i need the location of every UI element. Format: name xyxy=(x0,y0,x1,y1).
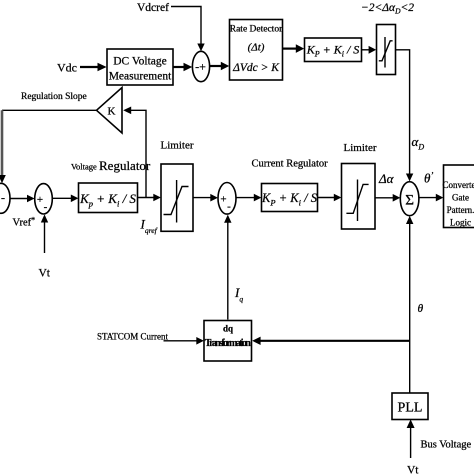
block converter gate pattern logic xyxy=(444,165,474,228)
wire voltage regulator to limiter L1 (Iqref) xyxy=(138,197,158,199)
wire K triangle output to summer S0 xyxy=(2,109,97,111)
svg-text:Gate: Gate xyxy=(452,193,469,203)
svg-text:-: - xyxy=(227,201,231,213)
svg-text:Kp + Ki / S: Kp + Ki / S xyxy=(79,191,136,209)
svg-text:Regulation Slope: Regulation Slope xyxy=(21,92,87,102)
wire summer S1 to Rate Detector xyxy=(210,65,222,67)
svg-text:Measurement: Measurement xyxy=(109,71,172,83)
droop gain K triangle xyxy=(97,88,123,134)
svg-text:-: - xyxy=(44,201,48,213)
wire summer SIGMA to converter gate pattern logic xyxy=(419,197,440,199)
svg-text:Vdc: Vdc xyxy=(57,61,77,75)
wire STATCOM Current to dq transformation xyxy=(164,340,201,342)
svg-text:DC Voltage: DC Voltage xyxy=(113,56,167,68)
wire theta trunk from PLL to summer SIGMA xyxy=(409,220,411,393)
summer SIGMA xyxy=(400,182,419,216)
svg-text:Vt: Vt xyxy=(39,268,51,280)
limiter L2 xyxy=(342,164,376,230)
wire limiter L0 to summer SIGMA (alpha-D path) xyxy=(396,50,410,177)
svg-text:+: + xyxy=(220,194,226,206)
svg-text:Vdcref: Vdcref xyxy=(137,2,169,14)
summer S0 (Vref correction) xyxy=(0,183,10,213)
svg-text:Regulator: Regulator xyxy=(99,158,151,173)
svg-text:Voltage: Voltage xyxy=(71,162,97,172)
wire DC Voltage Measurement to summer S1 xyxy=(173,66,184,68)
limiter L1 xyxy=(161,164,193,231)
svg-text:(Δt): (Δt) xyxy=(248,42,265,54)
wire Bus Voltage to PLL xyxy=(410,424,412,458)
svg-text:Bus Voltage: Bus Voltage xyxy=(421,440,472,451)
svg-text:Σ: Σ xyxy=(405,193,414,209)
svg-text:K: K xyxy=(108,106,116,118)
svg-text:ΔVdc > K: ΔVdc > K xyxy=(232,62,280,74)
svg-text:Limiter: Limiter xyxy=(344,142,377,154)
svg-text:PLL: PLL xyxy=(398,401,423,416)
svg-text:Logic: Logic xyxy=(450,218,471,228)
svg-text:dq: dq xyxy=(223,324,233,334)
block PLL xyxy=(392,393,428,420)
wire current regulator to limiter L2 xyxy=(318,197,338,199)
wire Vdcref to summer S1 xyxy=(171,7,201,46)
summer S1 (Vdcref minus Vdc) xyxy=(192,51,209,81)
svg-text:+: + xyxy=(37,194,43,206)
wire limiter L1 to summer S3 xyxy=(193,197,214,199)
summer S3 (Iqref minus Iq) xyxy=(218,183,236,215)
svg-text:Converter: Converter xyxy=(443,180,474,190)
svg-text:Vt: Vt xyxy=(407,465,419,474)
svg-text:-+: -+ xyxy=(195,60,206,74)
wire theta branch to dq transformation xyxy=(258,340,410,342)
svg-text:STATCOM Current: STATCOM Current xyxy=(97,332,169,342)
svg-text:Current Regulator: Current Regulator xyxy=(252,159,329,170)
wire summer S3 to current regulator xyxy=(236,197,257,199)
wire PI controller U1 to limiter L0 xyxy=(362,49,371,51)
wire Vdc input to DC Voltage Measurement xyxy=(80,66,99,68)
wire Rate Detector to PI controller U1 xyxy=(283,47,298,49)
wire Vt input to summer S2 xyxy=(44,219,46,253)
block voltage regulator PI U2 xyxy=(79,183,138,213)
block Rate Detector xyxy=(230,20,283,81)
block PI controller U1 Kp+Ki/S xyxy=(305,38,362,62)
wire feedback tap to K triangle xyxy=(131,110,146,197)
svg-text:Limiter: Limiter xyxy=(161,140,194,152)
svg-text:θ: θ xyxy=(418,303,424,315)
svg-text:Pattern.: Pattern. xyxy=(447,205,474,215)
svg-text:Transformation: Transformation xyxy=(205,338,251,349)
wire limiter L2 to summer SIGMA (delta-alpha) xyxy=(375,197,397,199)
wire summer S2 to voltage regulator xyxy=(53,197,75,199)
wire Iq to summer S3 xyxy=(227,219,229,320)
svg-text:-: - xyxy=(1,191,5,205)
block DC Voltage Measurement xyxy=(107,49,173,85)
svg-text:Δα: Δα xyxy=(378,171,395,186)
svg-text:KP + Ki / S: KP + Ki / S xyxy=(306,43,360,59)
block dq transformation xyxy=(204,321,252,362)
svg-text:−2<ΔαD<2: −2<ΔαD<2 xyxy=(361,2,414,16)
wire summer S0 to summer S2 xyxy=(10,198,31,200)
block current regulator PI U3 xyxy=(262,184,318,212)
svg-text:Rate Detector: Rate Detector xyxy=(230,25,283,35)
summer S2 (Vref minus Vt) xyxy=(35,184,53,214)
limiter L0 (alpha-D limiter) xyxy=(377,25,396,75)
